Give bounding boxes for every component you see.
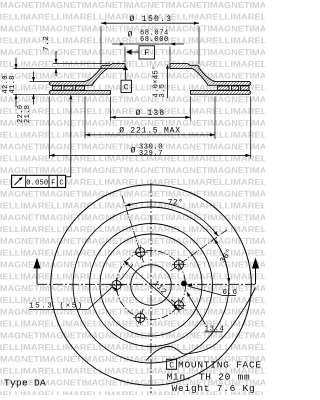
vertical centerline <box>150 183 152 393</box>
dim Ø221.5 MAX <box>84 97 86 139</box>
svg-text:Ø 221.5 MAX: Ø 221.5 MAX <box>119 126 181 135</box>
radial centerline through 108-deg hole <box>122 195 144 263</box>
section: vent vanes <box>53 86 62 90</box>
radial centerline through 36-deg hole <box>170 229 228 271</box>
datum F (triangle + box) <box>126 49 132 55</box>
svg-text:Weight 7.6 Kg: Weight 7.6 Kg <box>172 383 256 394</box>
dim Ø138 (hat inner dia) <box>110 97 112 121</box>
dim Ø68.074/68.000 <box>112 43 184 45</box>
svg-text:3.5: 3.5 <box>159 84 167 98</box>
radial centerline through 324-deg hole <box>171 300 187 312</box>
section arrows (cutting plane ends) <box>36 262 38 284</box>
svg-text:C: C <box>124 84 129 93</box>
svg-text:72°: 72° <box>168 199 184 208</box>
bolt hole at 324 deg <box>174 301 183 310</box>
svg-text:68.000: 68.000 <box>140 36 169 44</box>
svg-text:Ø 138: Ø 138 <box>136 109 166 118</box>
svg-text:MOUNTING FACE: MOUNTING FACE <box>178 360 262 371</box>
mounting face note <box>167 359 177 369</box>
svg-text:7.2: 7.2 <box>43 36 51 51</box>
svg-text:21.8: 21.8 <box>24 105 32 123</box>
horizontal centerline / cutting plane <box>37 283 256 285</box>
bolt circle Ø112 (dash-dot) <box>117 251 186 320</box>
svg-text:C: C <box>59 179 63 187</box>
section: bottom plate left <box>49 91 110 95</box>
svg-text:Min. TH 20 mm: Min. TH 20 mm <box>167 371 251 382</box>
svg-text:F: F <box>51 179 55 187</box>
section: disc right half (top plate + hat wall + flange) <box>170 64 251 86</box>
section: disc left half (top plate + hat wall + flange) <box>49 64 125 86</box>
dim Ø150.3 <box>101 22 199 24</box>
svg-text:6.6: 6.6 <box>223 289 238 297</box>
dim 42.0/41.8 (overall height) <box>13 93 49 95</box>
radial centerline through 252-deg hole <box>137 309 143 328</box>
runout feature control frame 0.050 FC <box>12 175 66 187</box>
chamfer note 4.0/3.5 x45 <box>167 65 169 98</box>
svg-text:41.8: 41.8 <box>9 75 17 93</box>
svg-text:Ø: Ø <box>131 147 136 156</box>
dim Ø330.0/329.7 <box>48 97 50 159</box>
dim 22.0/21.8 (band thickness) <box>30 81 50 83</box>
svg-text:0.050: 0.050 <box>26 179 48 187</box>
svg-text:329.7: 329.7 <box>139 150 163 158</box>
centerline segment through 180-deg hole <box>121 264 134 280</box>
break/leader curve to mounting-face note <box>146 288 256 361</box>
svg-text:Type DA: Type DA <box>4 377 46 388</box>
set-screw hole Ø6.6 (filled) <box>181 281 187 287</box>
bottom view concentric circles <box>51 185 252 386</box>
svg-text:C: C <box>169 361 174 370</box>
svg-text:Ø: Ø <box>128 30 133 39</box>
leader from frame to band bottom <box>66 96 71 177</box>
svg-text:F: F <box>144 49 149 58</box>
section: bottom plate right <box>191 91 251 95</box>
bolt hole at 36 deg <box>174 260 183 269</box>
datum C (triangle + box, mounting face) <box>123 66 128 70</box>
dim 7.2 (boss height) <box>53 63 110 65</box>
bolt hole at 252 deg <box>136 313 145 322</box>
36 deg arc dimension <box>214 239 229 283</box>
bolt hole at 108 deg <box>136 248 145 257</box>
svg-text:Ø 150.3: Ø 150.3 <box>130 15 173 24</box>
dim Ø112 diagonal <box>124 261 179 309</box>
72 deg arc dimension <box>125 202 218 236</box>
bolt hole at 180 deg <box>112 280 121 289</box>
